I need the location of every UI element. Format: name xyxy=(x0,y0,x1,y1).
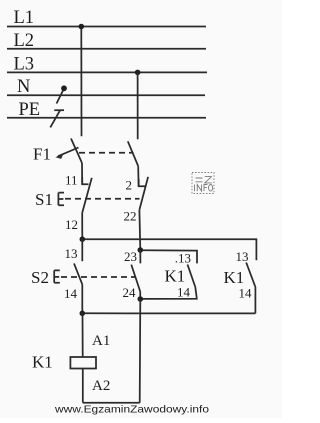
svg-text:14: 14 xyxy=(64,286,78,301)
EZ INFO stamp xyxy=(192,173,214,194)
wire node 23 to S2 pole 2 xyxy=(139,250,141,263)
wire coil A2 down xyxy=(82,369,84,403)
PE connection bar xyxy=(54,109,64,111)
svg-text:S1: S1 xyxy=(35,190,53,209)
rail L2 xyxy=(7,48,206,50)
S2 mechanical link dashes xyxy=(61,276,135,278)
breaker F1 pole 1 moving contact xyxy=(71,139,82,164)
coil K1 body xyxy=(70,357,96,369)
svg-text:.13: .13 xyxy=(175,250,191,265)
contact S1 pole 2 fixed foot xyxy=(139,179,146,186)
svg-text:13: 13 xyxy=(236,249,249,264)
wire S1-22 to node 23 xyxy=(138,210,141,250)
contact S1 pole 1 moving arm (NC 11-12) xyxy=(82,178,92,213)
S1 mechanical link dashes xyxy=(65,198,140,200)
svg-text:2: 2 xyxy=(126,178,133,193)
svg-text:www.EgzaminZawodowy.info: www.EgzaminZawodowy.info xyxy=(54,404,209,416)
wire node to S2 contact 13 xyxy=(81,239,83,261)
F1 arrowhead xyxy=(55,153,63,159)
svg-text:F1: F1 xyxy=(33,145,51,164)
wire F1 to S1 pole 2 xyxy=(137,166,139,186)
junction V2 tap on L3 xyxy=(135,70,141,76)
svg-text:L3: L3 xyxy=(14,55,35,75)
rail L3 xyxy=(7,71,207,73)
svg-text:23: 23 xyxy=(124,249,137,264)
F1 mechanical link dashes xyxy=(79,152,134,154)
node N-tap slash xyxy=(57,90,64,104)
junction node 23 xyxy=(138,247,144,253)
S1 actuator E symbol xyxy=(58,193,64,206)
svg-text:12: 12 xyxy=(65,217,78,232)
contact S2 pole 2 moving arm (NO 23-24) xyxy=(131,265,140,292)
svg-text:S2: S2 xyxy=(31,268,49,287)
node N tap dot xyxy=(61,85,67,91)
rail PE xyxy=(7,117,206,119)
junction node 24 xyxy=(138,296,144,302)
svg-text:L1: L1 xyxy=(14,8,35,28)
svg-text:24: 24 xyxy=(123,285,137,300)
junction V1 tap on L1 xyxy=(79,24,85,30)
wire node 24 down to bottom link xyxy=(139,299,142,403)
breaker F1 pole 2 moving contact xyxy=(128,141,138,166)
wire S2-14 to node 14 xyxy=(81,284,83,313)
junction node 13 xyxy=(80,236,86,242)
F1 arrow xyxy=(58,148,79,157)
svg-text:K1: K1 xyxy=(32,353,53,372)
junction node 14 xyxy=(80,311,86,317)
contact S1 pole 2 moving arm (NC 21-22) xyxy=(139,177,148,210)
wire bottom link A2 to V2 xyxy=(83,402,140,404)
wire node 14 to coil A1 xyxy=(82,313,84,357)
contact S1 pole 1 fixed foot xyxy=(82,177,88,184)
wire L3 to F1 pole 2 xyxy=(137,72,139,139)
svg-text:A2: A2 xyxy=(92,378,110,394)
PE connection slash xyxy=(50,110,60,127)
wire bus node14 to K1 aux 14 xyxy=(85,312,256,314)
svg-text:K1: K1 xyxy=(165,267,186,286)
wire K1 mid 14 to node 24 xyxy=(143,287,197,299)
wire F1 to S1 pole 1 xyxy=(81,163,83,184)
S2 actuator E symbol xyxy=(54,270,60,282)
wire bus node13 to K1 aux contact 13 xyxy=(85,239,257,260)
contact K1 aux right moving arm (NO 13-14) xyxy=(246,263,255,288)
contact S2 pole 1 moving arm (NO 13-14) xyxy=(74,263,82,284)
rail L1 xyxy=(7,26,206,28)
contact K1 mid moving arm (NO 13-14) xyxy=(188,265,196,288)
wire K1 aux 14 down to bus xyxy=(254,287,256,313)
svg-text:11: 11 xyxy=(65,173,78,188)
svg-text:13: 13 xyxy=(65,246,78,261)
svg-text:A1: A1 xyxy=(92,333,110,349)
svg-text:PE: PE xyxy=(19,100,41,120)
wire node 23 to K1 mid contact 13 xyxy=(143,250,197,263)
rail N xyxy=(7,94,205,96)
svg-text:22: 22 xyxy=(124,209,137,224)
wire S2-24 to node 24 xyxy=(139,292,141,300)
svg-text:L2: L2 xyxy=(14,31,35,51)
svg-text:14: 14 xyxy=(239,286,253,301)
wire L1 to F1 pole 1 xyxy=(80,27,82,137)
svg-text:N: N xyxy=(17,77,30,97)
svg-text:K1: K1 xyxy=(224,268,245,287)
wire S1-12 to node 13 xyxy=(81,213,83,240)
svg-text:14: 14 xyxy=(177,285,191,300)
